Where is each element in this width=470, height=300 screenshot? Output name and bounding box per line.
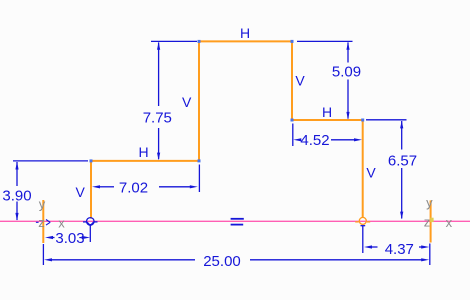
svg-text:V: V (76, 184, 86, 200)
centerline (pink construction axis) (0, 220, 470, 222)
sketch profile outline (orange) (91, 41, 363, 218)
svg-text:6.57: 6.57 (388, 152, 417, 169)
vertex dot (362.7,119.5) (361, 119, 364, 122)
dimension 25.00 (43, 244, 429, 266)
dimension 3.90 (13, 161, 88, 220)
vertex dot (199,160) (198, 159, 201, 162)
svg-text:3.03: 3.03 (55, 230, 84, 247)
dimension 6.57 (366, 120, 407, 219)
vertex dot (292,119.5) (291, 119, 294, 122)
vertex dot (292,41) (291, 40, 294, 43)
dimension 7.75 (151, 41, 197, 159)
svg-text:x: x (446, 215, 453, 230)
svg-text:H: H (138, 144, 148, 160)
svg-text:z: z (38, 215, 45, 230)
vertex dot (199,41) (198, 40, 201, 43)
svg-text:4.52: 4.52 (300, 132, 329, 149)
svg-text:7.02: 7.02 (119, 179, 148, 196)
svg-text:H: H (322, 104, 332, 120)
right endpoint circle marker on centerline (355, 217, 370, 224)
svg-text:7.75: 7.75 (143, 109, 172, 126)
svg-text:V: V (366, 165, 376, 181)
svg-text:25.00: 25.00 (203, 253, 241, 270)
dimension 7.02 (99, 165, 199, 193)
svg-text:x: x (58, 216, 65, 231)
left triad origin arrow (36, 220, 50, 226)
svg-text:5.09: 5.09 (332, 63, 361, 80)
svg-text:4.37: 4.37 (385, 241, 414, 258)
left coordinate triad axis line (42, 200, 44, 243)
svg-text:z: z (424, 215, 431, 230)
svg-text:y: y (426, 195, 433, 210)
dimension 3.03 (52, 224, 90, 242)
svg-text:V: V (295, 73, 305, 89)
dimension 4.37 (361, 226, 423, 253)
right triad origin point (yellow) (430, 218, 433, 222)
dimension 4.52 (293, 124, 356, 147)
vertex dot (91,160) (90, 159, 93, 162)
right coordinate triad axis line (430, 200, 432, 242)
svg-text:3.90: 3.90 (2, 188, 31, 205)
svg-text:V: V (182, 94, 192, 110)
svg-text:y: y (39, 197, 46, 212)
dimension 5.09 (297, 41, 353, 118)
svg-text:H: H (240, 25, 250, 41)
equal constraint symbol on centerline (231, 218, 244, 226)
left endpoint circle marker on centerline (83, 218, 98, 226)
